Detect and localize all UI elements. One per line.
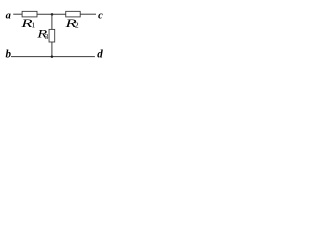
wire b to d	[11, 56, 95, 58]
svg-text:c: c	[98, 10, 103, 21]
resistor R1	[22, 11, 37, 17]
label R2	[64, 17, 77, 30]
node d	[97, 48, 103, 61]
node junction top	[51, 13, 54, 16]
wire R2 to c	[80, 13, 96, 15]
wire R1 to R2	[37, 13, 66, 15]
label R1	[20, 17, 33, 30]
wire a to R1	[13, 13, 22, 15]
wire junction down to R3	[51, 14, 53, 29]
svg-text:a: a	[6, 10, 11, 21]
resistor R2	[66, 11, 80, 17]
node b	[5, 48, 11, 61]
svg-text:2: 2	[75, 21, 79, 30]
node junction bottom	[51, 55, 54, 58]
svg-text:b: b	[5, 48, 11, 61]
svg-text:3: 3	[45, 32, 49, 41]
svg-text:d: d	[97, 48, 103, 61]
label R3	[36, 28, 47, 41]
wire R3 to bottom rail	[51, 42, 53, 57]
resistor R3	[49, 29, 55, 42]
svg-text:1: 1	[31, 21, 35, 30]
